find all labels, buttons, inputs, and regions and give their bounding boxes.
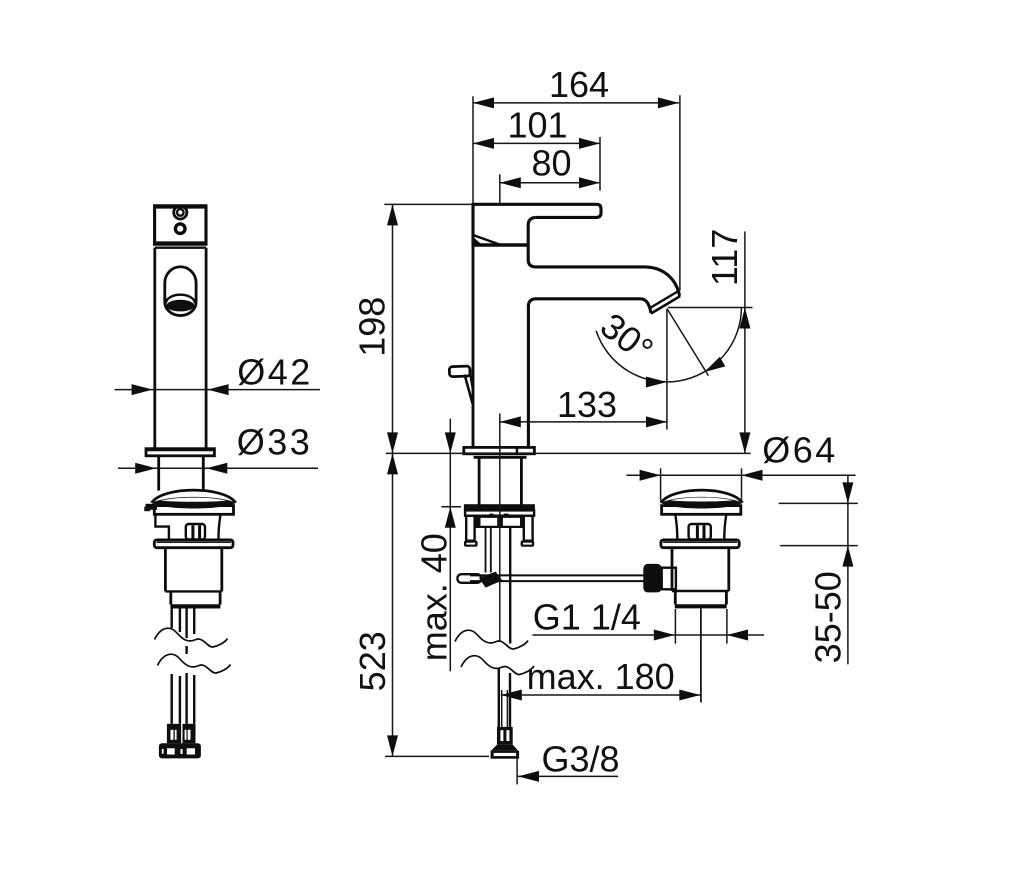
spout underside and body right edge bbox=[528, 299, 641, 449]
mounting H-frame bbox=[474, 516, 525, 528]
drain neck bbox=[675, 514, 677, 540]
svg-text:523: 523 bbox=[352, 631, 393, 691]
waste lever tab bbox=[146, 504, 158, 510]
dim 35-50 ticks bbox=[779, 502, 858, 504]
hose connector left bbox=[167, 724, 181, 744]
dim Ø42 line bbox=[115, 389, 320, 391]
cartridge cap top line bbox=[472, 243, 528, 247]
lift rod arm bbox=[465, 375, 473, 404]
deck reference line bbox=[386, 452, 751, 454]
mounting shank bbox=[478, 458, 481, 504]
waste neck bbox=[218, 514, 220, 540]
supply hoses upper bbox=[170, 609, 172, 629]
shank nut band bbox=[464, 504, 535, 510]
svg-text:164: 164 bbox=[549, 64, 609, 105]
mounting stud right bbox=[524, 516, 533, 541]
rod clevis block bbox=[643, 564, 661, 593]
dim Ø64 line bbox=[626, 474, 855, 476]
dim 133 line bbox=[500, 421, 667, 423]
svg-text:133: 133 bbox=[557, 384, 617, 425]
middle break wave 2 bbox=[461, 656, 534, 675]
svg-text:35-50: 35-50 bbox=[808, 571, 849, 663]
drain plug with ribs bbox=[689, 524, 711, 540]
hose end fitting band bbox=[159, 743, 201, 758]
deck flange (front view) bbox=[146, 449, 214, 456]
drain basin flange bbox=[661, 540, 739, 548]
dim Ø33 line bbox=[118, 467, 318, 469]
mounting stud left bbox=[466, 516, 474, 541]
break wave 2 bbox=[158, 654, 231, 673]
lever tip wedge fill bbox=[472, 236, 482, 244]
dim 101 line bbox=[473, 142, 600, 144]
svg-text:G1 1/4: G1 1/4 bbox=[533, 597, 641, 638]
G3/8 fitting neck bbox=[497, 727, 513, 745]
dim 523 line bbox=[392, 453, 394, 756]
rod end lever bar bbox=[457, 574, 481, 583]
middle break wave 1 bbox=[455, 630, 528, 649]
pop-up rod vertical bbox=[485, 528, 487, 573]
angle 30 diagonal leg bbox=[667, 309, 709, 376]
break wave 1 bbox=[155, 628, 228, 647]
supply pipe lower bbox=[498, 668, 500, 727]
angle 30 arc bbox=[596, 308, 741, 382]
spout outlet face outer line bbox=[651, 296, 680, 314]
supply hoses lower bbox=[170, 674, 172, 724]
LEFT-VIEW-GROUP bbox=[144, 206, 235, 759]
dim 133 extension lines bbox=[499, 414, 501, 642]
body left edge bbox=[472, 245, 475, 448]
aperture dark opening bbox=[167, 300, 195, 312]
aperture lens outline bbox=[166, 295, 195, 304]
dim 117 top tick bbox=[668, 307, 753, 309]
lift rod knob bbox=[449, 366, 470, 377]
spout aperture capsule bbox=[165, 267, 196, 316]
lever handle (side view) bbox=[473, 204, 601, 217]
faucet handle (front view) bbox=[155, 207, 206, 244]
dim max40 line bbox=[449, 419, 451, 672]
clevis coupler bbox=[662, 568, 676, 590]
dim G3/8 line bbox=[518, 775, 618, 777]
horizontal pop-up rod bbox=[470, 574, 644, 576]
drain tailpipe centerline bbox=[700, 608, 702, 702]
lever tip wedge diagonal bbox=[473, 235, 501, 245]
pop-up waste dome cap (front view) bbox=[152, 490, 236, 503]
dim max40 tick bbox=[441, 506, 461, 508]
handle dot bbox=[175, 224, 185, 234]
dim 101 extension line bbox=[599, 137, 601, 191]
supply pipe upper bbox=[509, 528, 511, 644]
drain flange plate bbox=[662, 506, 741, 515]
hose connector right bbox=[183, 724, 196, 744]
dim 117 line bbox=[744, 231, 746, 453]
svg-text:Ø42: Ø42 bbox=[237, 351, 313, 392]
neck right edge and spout top bbox=[528, 217, 679, 295]
waste basin flange bbox=[154, 540, 233, 548]
waste plug with ribs bbox=[186, 524, 205, 540]
dim G1 1/4 line bbox=[532, 634, 764, 636]
TEXT-GROUP bbox=[237, 64, 849, 780]
shank washer bbox=[465, 510, 534, 515]
dim max180 line bbox=[501, 694, 701, 696]
svg-text:Ø33: Ø33 bbox=[237, 422, 313, 463]
dim 164 extension lines bbox=[472, 96, 474, 203]
svg-text:max. 40: max. 40 bbox=[413, 533, 454, 661]
waste flange plate bbox=[154, 506, 233, 515]
handle screw ring bbox=[174, 206, 187, 219]
DIMENSIONS-GROUP bbox=[115, 95, 858, 784]
svg-text:Ø64: Ø64 bbox=[762, 430, 838, 471]
dim 523 bottom tick bbox=[385, 755, 489, 757]
base gasket bbox=[474, 456, 527, 459]
faucet body (front view) bbox=[155, 246, 206, 248]
drain dome cap bbox=[661, 490, 743, 503]
threaded shank (front view) bbox=[157, 456, 160, 491]
dim 198 line bbox=[392, 204, 394, 453]
dim Ø64 extension lines bbox=[660, 468, 662, 500]
DRAIN-VIEW-GROUP bbox=[643, 490, 742, 702]
dim 164 line bbox=[473, 102, 679, 104]
drain body bbox=[671, 548, 674, 591]
spout inner bend bbox=[641, 299, 651, 313]
svg-text:max. 180: max. 180 bbox=[527, 656, 675, 697]
waste body bbox=[164, 548, 167, 592]
dim 80 line bbox=[500, 182, 600, 184]
rod clamp bbox=[479, 572, 502, 588]
lever left edge bbox=[471, 203, 474, 245]
svg-text:101: 101 bbox=[507, 105, 567, 146]
dim 35-50 line bbox=[847, 475, 849, 664]
spout outlet face inner line bbox=[649, 292, 678, 309]
base plate (side view) bbox=[464, 447, 535, 453]
MIDDLE-VIEW-GROUP bbox=[449, 203, 680, 759]
svg-text:117: 117 bbox=[704, 229, 745, 286]
dim G1 1/4 extension lines bbox=[674, 609, 676, 644]
dim 198 top tick bbox=[384, 203, 473, 205]
svg-text:198: 198 bbox=[351, 297, 392, 357]
G3/8 fitting nut bbox=[491, 751, 519, 759]
svg-text:80: 80 bbox=[531, 143, 571, 184]
svg-text:G3/8: G3/8 bbox=[542, 739, 620, 780]
waste left step bracket bbox=[155, 514, 169, 540]
G3/8 fitting cone bbox=[491, 745, 518, 751]
dim G3/8 extension line bbox=[516, 759, 518, 785]
dim 80 extension line bbox=[499, 174, 501, 203]
